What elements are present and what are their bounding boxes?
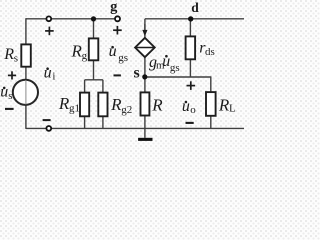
svg-text:s: s — [8, 90, 12, 102]
svg-text:g2: g2 — [121, 104, 132, 116]
wire bottom rail right — [52, 127, 244, 129]
svg-text:o: o — [190, 104, 196, 116]
svg-text:L: L — [229, 102, 236, 114]
input port terminal bottom — [46, 126, 51, 131]
wire Rg1 bottom lead — [84, 116, 86, 128]
wire source bottom lead — [25, 105, 27, 129]
plus sign u_s — [8, 71, 16, 79]
svg-text:s: s — [14, 52, 18, 64]
input port terminal top — [46, 16, 51, 21]
svg-text:g1: g1 — [69, 103, 80, 115]
resistor r_ds — [186, 36, 196, 59]
wire rds top lead — [189, 19, 191, 37]
resistor R_s — [21, 44, 31, 66]
svg-text:gs: gs — [118, 52, 128, 64]
wire VCCS bottom lead to s — [144, 57, 146, 77]
wire RL bottom lead — [210, 116, 212, 129]
wire top rail middle — [52, 18, 115, 20]
VCCS diamond g_m u_gs — [135, 38, 155, 57]
plus sign input port — [45, 27, 54, 36]
wire Rg2 top lead — [102, 80, 104, 93]
svg-text:u: u — [109, 43, 117, 60]
wire s rail — [145, 76, 211, 78]
minus sign u_gs — [114, 74, 121, 76]
resistor R — [141, 92, 150, 115]
source u_s circle — [13, 80, 38, 105]
resistor R_g1 — [80, 93, 89, 117]
wire Rg bottom lead — [93, 60, 95, 80]
VCCS arrow — [144, 24, 146, 33]
wire rds bottom lead — [189, 59, 191, 77]
svg-text:g: g — [82, 50, 88, 62]
node s junction — [142, 74, 147, 79]
plus sign u_o — [187, 81, 196, 90]
ground — [138, 138, 152, 141]
svg-text:s: s — [134, 64, 140, 81]
gate terminal g — [115, 16, 120, 21]
wire split bar — [85, 79, 103, 81]
wire VCCS top lead — [144, 19, 146, 39]
resistor R_g2 — [98, 93, 107, 117]
wire Rg2 bottom lead — [102, 116, 104, 128]
svg-text:u: u — [182, 98, 190, 115]
wire top rail right (d rail) — [145, 18, 244, 20]
svg-text:u: u — [0, 84, 8, 101]
wire Rg top lead — [93, 19, 95, 39]
minus sign input port — [43, 119, 51, 121]
wire s node to R — [144, 77, 146, 92]
node d junction — [188, 16, 193, 21]
wire top rail left — [26, 18, 46, 20]
resistor R_g — [89, 38, 99, 60]
svg-text:g: g — [110, 0, 118, 15]
svg-text:R: R — [151, 96, 163, 115]
wire R bottom lead to ground — [144, 115, 146, 137]
wire bottom rail left — [26, 127, 46, 129]
minus sign u_s — [5, 108, 14, 110]
wire RL top lead — [210, 76, 212, 92]
wire through source — [25, 80, 27, 105]
VCCS diamond chord — [136, 47, 155, 49]
plus sign u_gs — [113, 26, 122, 35]
svg-text:d: d — [191, 0, 199, 15]
node junction at Rg top — [91, 16, 96, 21]
resistor R_L — [206, 92, 216, 116]
svg-text:R: R — [3, 46, 14, 63]
svg-text:ds: ds — [205, 46, 215, 58]
svg-text:i: i — [52, 70, 55, 82]
wire Rs top lead — [25, 18, 27, 44]
minus sign u_o — [186, 122, 194, 124]
svg-text:u: u — [44, 64, 52, 81]
wire Rs bottom lead — [25, 67, 27, 80]
svg-text:gs: gs — [170, 62, 180, 74]
wire Rg1 top lead — [84, 80, 86, 93]
